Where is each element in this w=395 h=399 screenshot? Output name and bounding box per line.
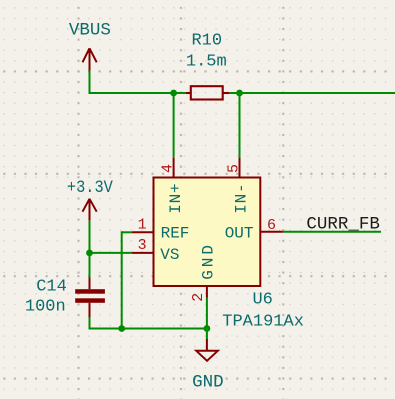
wire junction to pin 4 <box>173 93 175 158</box>
svg-text:IN-: IN- <box>233 183 251 214</box>
op-amp U6 body <box>154 178 261 287</box>
svg-text:C14: C14 <box>36 277 67 296</box>
svg-text:OUT: OUT <box>225 225 254 243</box>
svg-text:GND: GND <box>192 373 224 393</box>
svg-text:5: 5 <box>226 164 243 173</box>
svg-text:TPA191Ax: TPA191Ax <box>222 312 304 331</box>
pin 2 GND <box>206 286 208 298</box>
wire right of R10 to edge <box>228 92 395 94</box>
svg-text:R10: R10 <box>191 32 222 51</box>
svg-text:VS: VS <box>160 246 179 264</box>
power symbol VBUS <box>83 48 97 70</box>
svg-text:6: 6 <box>267 217 276 234</box>
wire OUT to label <box>283 231 381 233</box>
svg-text:1.5m: 1.5m <box>186 52 227 71</box>
wire VBUS horizontal left of R10 <box>89 92 187 94</box>
node junction at +3.3V/VS <box>86 250 93 257</box>
svg-text:1: 1 <box>138 216 147 233</box>
wire REF horizontal <box>122 231 132 233</box>
wire GND pin vertical <box>206 298 208 340</box>
pin 6 OUT <box>260 231 283 233</box>
node junction left of R10 <box>170 90 177 97</box>
svg-text:100n: 100n <box>25 297 66 316</box>
svg-text:3: 3 <box>138 237 147 254</box>
wire capacitor bottom <box>89 318 91 330</box>
wire +3.3V down to capacitor <box>89 221 91 278</box>
svg-text:REF: REF <box>161 225 190 243</box>
svg-text:+3.3V: +3.3V <box>67 178 113 198</box>
wire junction to pin 5 <box>239 93 241 158</box>
svg-text:CURR_FB: CURR_FB <box>306 214 380 234</box>
power symbol +3.3V <box>83 199 97 221</box>
wire bottom horizontal <box>89 328 207 330</box>
wire REF vertical down <box>121 231 123 328</box>
node junction right of R10 <box>236 90 243 97</box>
svg-text:4: 4 <box>160 164 177 173</box>
svg-text:U6: U6 <box>252 291 272 310</box>
svg-text:GND: GND <box>199 242 217 280</box>
svg-text:2: 2 <box>190 293 207 302</box>
pin 5 IN- <box>239 158 241 178</box>
node junction REF/bottom <box>118 325 125 332</box>
wire VS horizontal <box>90 252 132 254</box>
ground symbol <box>196 339 218 361</box>
node junction GND/bottom <box>204 325 211 332</box>
pin 4 IN+ <box>173 158 175 178</box>
svg-text:IN+: IN+ <box>167 183 185 214</box>
resistor R10 <box>186 86 229 99</box>
capacitor C14 <box>75 277 105 317</box>
pin 1 REF <box>132 231 154 233</box>
wire VBUS vertical <box>89 71 91 95</box>
svg-text:VBUS: VBUS <box>69 21 111 41</box>
pin 3 VS <box>132 252 154 254</box>
